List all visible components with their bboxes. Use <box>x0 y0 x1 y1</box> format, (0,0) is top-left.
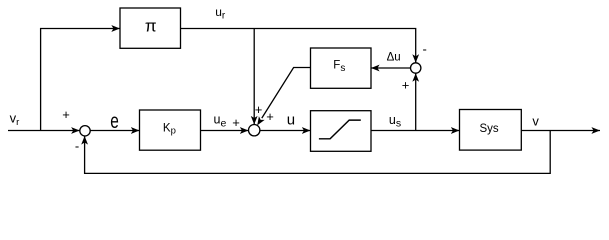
summer S3 <box>411 63 421 73</box>
wire: delta-u from S3 to Fs <box>371 67 411 69</box>
wire: u_e from Kp to summer S2 <box>201 130 249 132</box>
svg-text:-: - <box>75 138 79 153</box>
wire: input v_r to summer S1 <box>8 130 80 132</box>
svg-text:e: e <box>110 110 119 133</box>
svg-text:u: u <box>287 112 295 129</box>
wire: u from S2 to saturation block <box>260 130 311 132</box>
svg-text:Δu: Δu <box>387 52 401 64</box>
block pi <box>120 8 181 48</box>
svg-text:+: + <box>266 109 274 124</box>
svg-text:ur: ur <box>215 5 226 22</box>
wire: error e from S1 to Kp <box>90 130 139 132</box>
svg-text:+: + <box>232 115 240 130</box>
svg-text:us: us <box>389 113 401 130</box>
wire: output v from Sys to the right <box>521 130 600 132</box>
wire: feedback from output down, left and up into S1 <box>85 131 551 174</box>
wire: branch from v_r up and into pi block <box>41 29 120 131</box>
svg-text:vr: vr <box>10 111 20 128</box>
wire: u_s from saturation to Sys <box>371 130 459 132</box>
saturation block <box>311 111 372 152</box>
block Sys <box>460 110 522 151</box>
svg-text:+: + <box>62 107 70 122</box>
wire: Fs output diagonal into summer S2 <box>262 68 311 119</box>
arrowhead of Fs diagonal wire <box>257 116 264 125</box>
svg-text:+: + <box>402 78 410 93</box>
svg-text:v: v <box>532 113 539 128</box>
svg-text:-: - <box>423 42 427 57</box>
svg-text:+: + <box>255 102 263 117</box>
svg-text:π: π <box>145 17 157 36</box>
wire: branch down from u_r line into summer S2 <box>253 29 255 125</box>
summer S2 <box>249 125 260 136</box>
svg-text:ue: ue <box>214 113 227 130</box>
summer S1 <box>80 126 90 136</box>
wire: branch from u_s line up into summer S3 <box>415 73 417 130</box>
wire: pi output u_r across top, down into summer S3 <box>181 29 416 63</box>
block Kp <box>140 110 201 150</box>
block Fs <box>311 48 372 88</box>
svg-text:Sys: Sys <box>480 123 499 135</box>
